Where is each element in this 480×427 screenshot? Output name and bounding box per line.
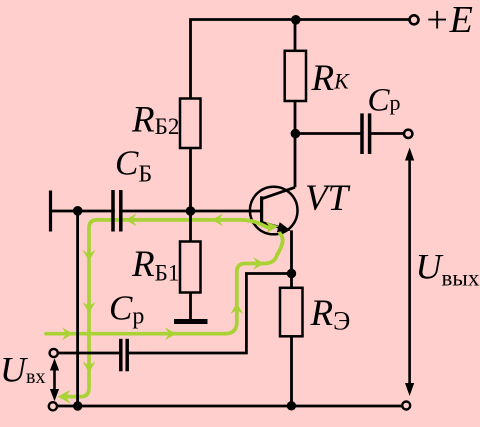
wire: bottom rail — [57, 405, 402, 408]
wire: green overlay at emitter (drawn over transistor) — [242, 220, 283, 255]
arrowhead: green left chevron on top line (x=125.5) — [126, 213, 137, 226]
wire: emitter vertical — [290, 230, 293, 273]
terminal input top — [50, 349, 58, 357]
wire: Cp to output terminal — [370, 132, 404, 135]
transistor VT — [250, 187, 298, 235]
node collector output — [291, 129, 301, 139]
arrowhead: green arrow end into emitter — [266, 222, 279, 233]
wire: left vertical from base rail to bottom rail — [76, 211, 79, 406]
wire: base node down through RБ1 to ground — [189, 211, 192, 319]
node bottom rail right — [287, 401, 296, 410]
arrowhead: green up chevron on riser (x=236.8) — [230, 303, 243, 314]
terminal output bottom — [402, 402, 410, 410]
node emitter — [287, 269, 296, 278]
node base rail left — [73, 206, 83, 216]
Uvyh double arrow — [405, 148, 414, 397]
capacitor Cp (input) — [121, 339, 127, 372]
arrowhead: green down chevron on left vertical (y=313) — [83, 302, 96, 313]
Uvh double arrow — [50, 358, 59, 401]
svg-text:+E: +E — [424, 0, 473, 41]
arrowhead: green right chevron (x=264,y=263.5) — [253, 257, 264, 270]
wire: input terminal to Cp bottom — [57, 352, 121, 355]
wire: output branch collector node to Cp — [295, 132, 362, 135]
capacitor CБ — [113, 190, 121, 232]
ground under RБ1 — [174, 319, 208, 324]
arrowhead: green right chevron on bottom line (x=73) — [62, 327, 73, 340]
chassis bar left end of base rail — [49, 191, 52, 232]
resistor RБ2 — [180, 99, 201, 149]
arrowhead: green down chevron on left vertical (y=261) — [83, 250, 96, 261]
terminal input bottom — [49, 402, 57, 410]
arrowhead: green arrow into emitter (overlay) — [266, 222, 279, 233]
wire: base rail from chassis to transistor base — [51, 210, 261, 213]
wire: collector vertical through RK — [294, 20, 297, 188]
resistor RK — [285, 51, 306, 101]
terminal output top — [404, 130, 412, 138]
wire: RБ2 bottom to base node — [189, 148, 192, 211]
wire: green return path (emitter->base->CБ->down->input minus) — [62, 220, 270, 397]
wire: Cp bottom to emitter node — [127, 274, 291, 354]
terminal +E — [410, 15, 419, 24]
node collector top rail — [291, 15, 301, 25]
capacitor Cp (output) — [362, 113, 370, 154]
resistor RЭ — [280, 288, 303, 337]
resistor RБ1 — [180, 242, 201, 293]
arrowhead: green down chevron on left vertical (y=372) — [83, 362, 96, 373]
svg-text:VT: VT — [305, 178, 351, 219]
node base — [186, 206, 196, 216]
arrowhead: green right chevron on bottom line (x=176) — [165, 327, 176, 340]
wire: green input path (input plus->Cp->up to emitter) — [46, 234, 283, 334]
arrowhead: green left arrow end near input minus — [58, 390, 71, 404]
node bottom rail left — [73, 401, 82, 410]
wire: +E top rail and drop to RБ2 — [191, 20, 410, 99]
arrowhead: green left chevron on top line (x=212) — [212, 213, 223, 226]
wire: emitter node down through RЭ to bottom rail — [290, 274, 293, 407]
